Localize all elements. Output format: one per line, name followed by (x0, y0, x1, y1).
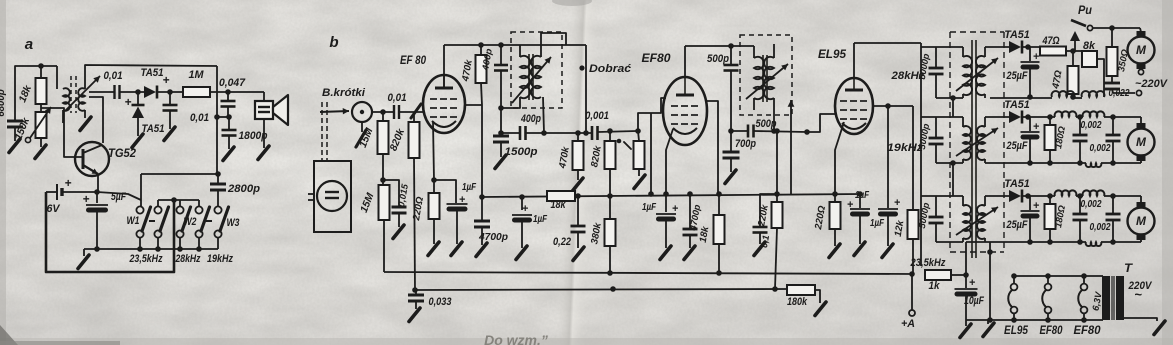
svg-text:+: + (894, 197, 901, 209)
svg-text:TA51: TA51 (141, 67, 164, 79)
svg-text:6V: 6V (47, 203, 61, 215)
svg-text:0,002: 0,002 (1090, 143, 1111, 154)
svg-text:180k: 180k (787, 296, 808, 308)
svg-text:W3: W3 (227, 217, 240, 229)
svg-text:0,001: 0,001 (585, 110, 609, 122)
svg-text:28kHz: 28kHz (175, 253, 201, 265)
svg-text:19kHz: 19kHz (207, 253, 233, 265)
svg-text:+: + (163, 73, 170, 87)
svg-text:47Ω: 47Ω (1042, 35, 1060, 47)
svg-text:23,5kHz: 23,5kHz (910, 257, 946, 269)
svg-text:0,002: 0,002 (1081, 120, 1102, 131)
svg-text:700p: 700p (735, 138, 756, 150)
svg-text:+: + (522, 203, 529, 215)
svg-text:M: M (1136, 43, 1147, 57)
svg-text:EF80: EF80 (1074, 323, 1101, 337)
svg-text:2800p: 2800p (227, 183, 260, 195)
svg-text:28kHz: 28kHz (890, 70, 924, 82)
svg-text:6800p: 6800p (0, 89, 7, 117)
svg-text:0,01: 0,01 (388, 92, 407, 104)
svg-text:23,5kHz: 23,5kHz (129, 253, 163, 265)
svg-text:+: + (125, 95, 132, 109)
svg-text:~: ~ (1134, 287, 1142, 302)
svg-text:Pu: Pu (1078, 3, 1093, 17)
svg-text:1M: 1M (189, 69, 205, 81)
svg-text:1500p: 1500p (505, 146, 538, 158)
svg-text:B.krótki: B.krótki (322, 87, 366, 99)
svg-text:+A: +A (901, 318, 915, 330)
svg-text:500p: 500p (756, 118, 777, 130)
svg-text:W1: W1 (127, 215, 140, 227)
svg-text:EF80: EF80 (642, 51, 671, 65)
svg-text:EL95: EL95 (818, 47, 847, 61)
svg-text:1µF: 1µF (462, 182, 477, 193)
svg-text:1µF: 1µF (533, 214, 548, 225)
svg-text:+: + (65, 176, 72, 190)
svg-text:1µF: 1µF (870, 218, 885, 229)
svg-text:1k: 1k (929, 280, 941, 292)
svg-text:25µF: 25µF (1006, 140, 1028, 152)
svg-text:b: b (329, 34, 338, 51)
svg-text:W2: W2 (184, 216, 197, 228)
svg-text:0,002: 0,002 (1090, 222, 1111, 233)
svg-text:5µF: 5µF (111, 191, 126, 203)
svg-text:Dobrać: Dobrać (589, 63, 632, 75)
svg-text:25µF: 25µF (1006, 70, 1028, 82)
svg-text:0,01: 0,01 (104, 70, 123, 82)
svg-text:TA51: TA51 (1004, 178, 1030, 190)
svg-text:EF 80: EF 80 (400, 53, 426, 67)
svg-text:0,22: 0,22 (553, 236, 571, 248)
svg-text:19kHz: 19kHz (887, 142, 923, 154)
svg-text:TA51: TA51 (142, 123, 165, 135)
svg-text:EL95: EL95 (1004, 323, 1028, 337)
svg-text:10µF: 10µF (964, 295, 984, 307)
svg-text:25µF: 25µF (1006, 219, 1028, 231)
svg-text:0,01: 0,01 (190, 112, 209, 124)
svg-text:M: M (1136, 214, 1147, 228)
svg-text:+: + (969, 277, 976, 289)
svg-text:M: M (1136, 135, 1147, 149)
svg-text:500p: 500p (707, 53, 729, 65)
svg-text:~220V: ~220V (1135, 78, 1168, 90)
svg-text:400p: 400p (520, 113, 541, 125)
svg-text:1µF: 1µF (855, 190, 870, 201)
svg-text:0,047: 0,047 (219, 77, 246, 89)
svg-text:TA51: TA51 (1004, 29, 1030, 41)
svg-text:TA51: TA51 (1004, 99, 1030, 111)
svg-text:+: + (83, 192, 90, 206)
svg-text:Do wzm.”: Do wzm.” (484, 332, 548, 345)
svg-text:0,033: 0,033 (429, 296, 452, 308)
svg-text:18k: 18k (551, 199, 567, 211)
svg-text:4700p: 4700p (478, 232, 508, 243)
svg-text:0,002: 0,002 (1081, 199, 1102, 210)
svg-text:a: a (25, 36, 33, 53)
svg-text:1µF: 1µF (642, 202, 657, 213)
svg-text:EF80: EF80 (1040, 323, 1063, 337)
